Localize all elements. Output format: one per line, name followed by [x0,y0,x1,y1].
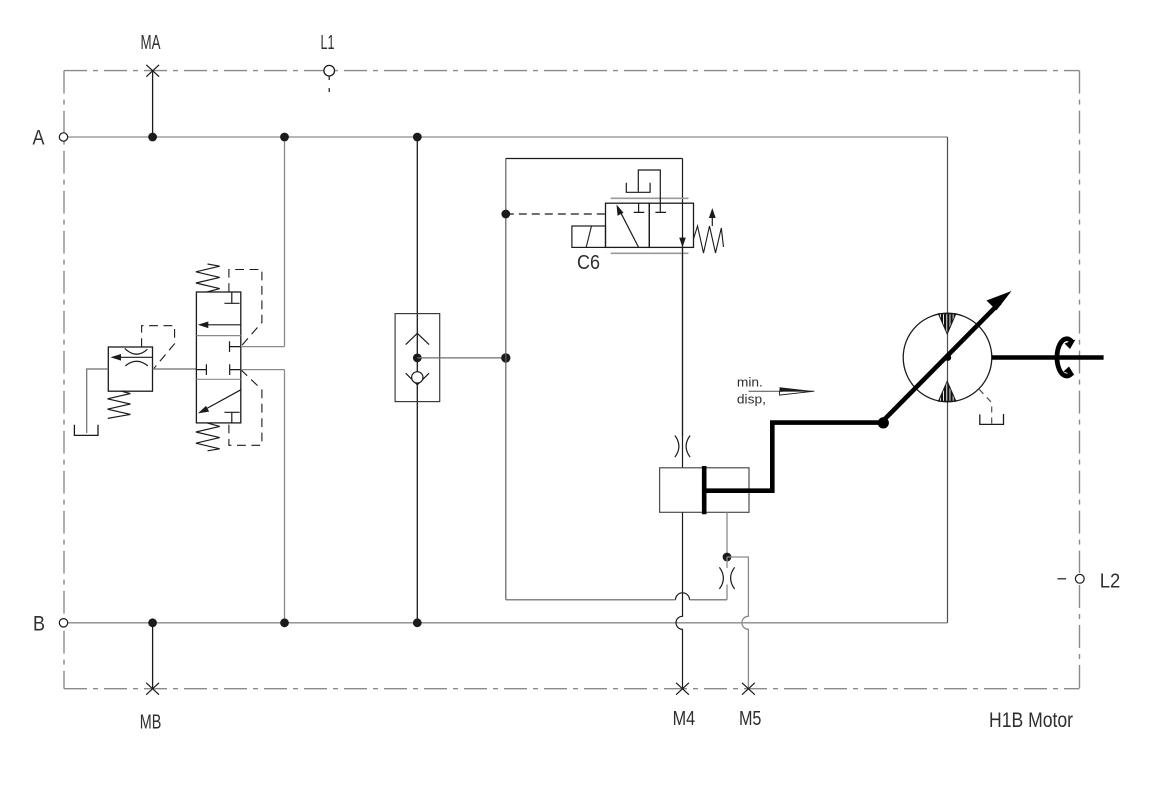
linkage junction dot [878,417,889,428]
orifice on servo supply [675,436,690,458]
wire: servo left chamber down to B [676,512,682,688]
compensator mid blocked port right-top [230,341,241,352]
port A circle [59,133,67,141]
junction dot A/MA [148,133,157,142]
drain tank symbol [74,425,98,436]
enclosure border bottom [64,688,1080,690]
svg-text:C6: C6 [577,252,600,274]
motor triangle bottom (hatched) [938,381,956,401]
enclosure border right [1079,71,1081,573]
svg-text:L1: L1 [321,32,335,54]
junction dot B/MB [148,618,157,627]
L2 dashed stub [1058,578,1067,580]
motor triangle top (hatched) [938,314,956,334]
compensator pilot dashed upper (from A side) [229,270,262,347]
relief valve venturi arcs [125,348,148,354]
compensator bottom section arrow [202,390,241,412]
port M4 X marker [676,683,689,695]
C6 valve body left square [606,203,650,247]
wire: MA gauge stub [152,71,154,137]
wire: shuttle output to servo frame [417,357,506,359]
compensator bottom blocked port [224,412,239,423]
svg-text:min.: min. [737,376,763,390]
motor variable arrow thick [881,303,1001,424]
junction dot B x417 [413,618,422,627]
C6 valve body right square [649,203,693,247]
C6 left square arrow [619,208,639,247]
relief valve spring [108,391,131,418]
wire: compensator right-top to A riser [241,346,285,348]
servo piston thick [702,466,707,514]
motor circle [903,313,992,402]
wire: servo circuit frame top [506,158,683,160]
motor shaft thick [992,355,1104,360]
compensator section boundaries [196,336,240,380]
junction dot frame-left/shuttle [501,353,510,362]
C6 spring right [694,226,724,253]
C6 solenoid slash [586,226,591,247]
wire: MB gauge stub [152,623,154,689]
svg-text:MA: MA [141,32,161,54]
C6 left square blocked port [634,203,645,212]
compensator top blocked port [224,292,239,303]
motor case drain dashed [979,389,991,423]
C6 flow arrow down in right square [682,236,684,240]
port MB X marker [146,683,159,695]
C6 right square blocked port [655,203,666,212]
junction dot B x284 [280,618,289,627]
svg-text:A: A [33,126,46,150]
servo rod linkage thick [704,423,883,491]
wire: line A [64,136,948,138]
relief valve flow arrow [114,356,153,358]
wire: servo circuit frame left [505,159,507,600]
wire: servo drain to M5 branch [727,557,748,689]
shuttle check ball [412,372,423,383]
orifice on servo drain [719,567,734,589]
motor center dot [944,354,951,361]
wire: shuttle vertical A-B [416,137,418,623]
compensator pilot dashed lower (from B side) [229,370,262,446]
compensator mid blocked port right [230,364,241,375]
port MA X marker [146,65,159,77]
wire: C6 supply down through valve [682,159,684,437]
min disp arrow [749,390,784,392]
relief valve body (left) [108,347,152,391]
servo piston box [660,468,749,513]
wire: relief valve to compensator [153,368,197,370]
svg-text:L2: L2 [1100,571,1121,593]
port L1 circle [324,65,335,76]
junction dot A x284 [280,133,289,142]
port M5 X marker [742,683,755,695]
wire: drain through orifice to frame bottom [726,557,728,600]
wire: node A to compensator valve vertical [284,137,286,623]
compensator valve body (3 position) [196,292,240,423]
shaft rotation symbol [1057,339,1073,376]
junction dot servo drain [723,553,732,562]
C6 detent symbol [626,183,650,193]
svg-text:disp,: disp, [737,393,766,407]
wire: L1 dashed stub [328,76,330,94]
enclosure border left [63,71,65,689]
svg-text:H1B Motor: H1B Motor [989,709,1073,732]
svg-text:M4: M4 [673,708,696,730]
svg-text:B: B [33,612,45,636]
shuttle check chevron up [406,333,429,344]
wire: compensator right to B riser [241,369,285,371]
compensator top spring [196,264,220,292]
wire: motor vertical from A [947,137,949,623]
wire: servo circuit frame bottom with hop [506,599,727,601]
compensator bottom spring [196,423,220,451]
wire: C6 output down to servo [682,247,684,467]
compensator mid blocked port left [196,364,206,375]
junction dot pilot C6 [501,210,510,219]
C6 spring adjust arrow [711,215,713,226]
wire: line B [64,622,948,624]
case drain tank [980,414,1004,424]
C6 proportional bars [611,198,689,253]
port B circle [59,619,67,627]
relief valve pilot dashed [142,326,175,369]
wire: dashed pilot to C6 valve [506,213,606,215]
shuttle valve box [395,314,440,402]
C6 solenoid box [572,226,606,247]
svg-text:M5: M5 [739,708,762,730]
junction dot A x417 [413,133,422,142]
wire: relief valve left to drain [87,369,109,433]
shuttle check seat chevron down [406,373,429,385]
enclosure border top [64,70,1080,72]
compensator top section arrow [201,324,241,326]
wire: servo right chamber down [726,512,728,557]
port L2 circle [1075,574,1084,583]
shuttle junction dot [413,354,422,363]
svg-text:MB: MB [140,712,162,734]
